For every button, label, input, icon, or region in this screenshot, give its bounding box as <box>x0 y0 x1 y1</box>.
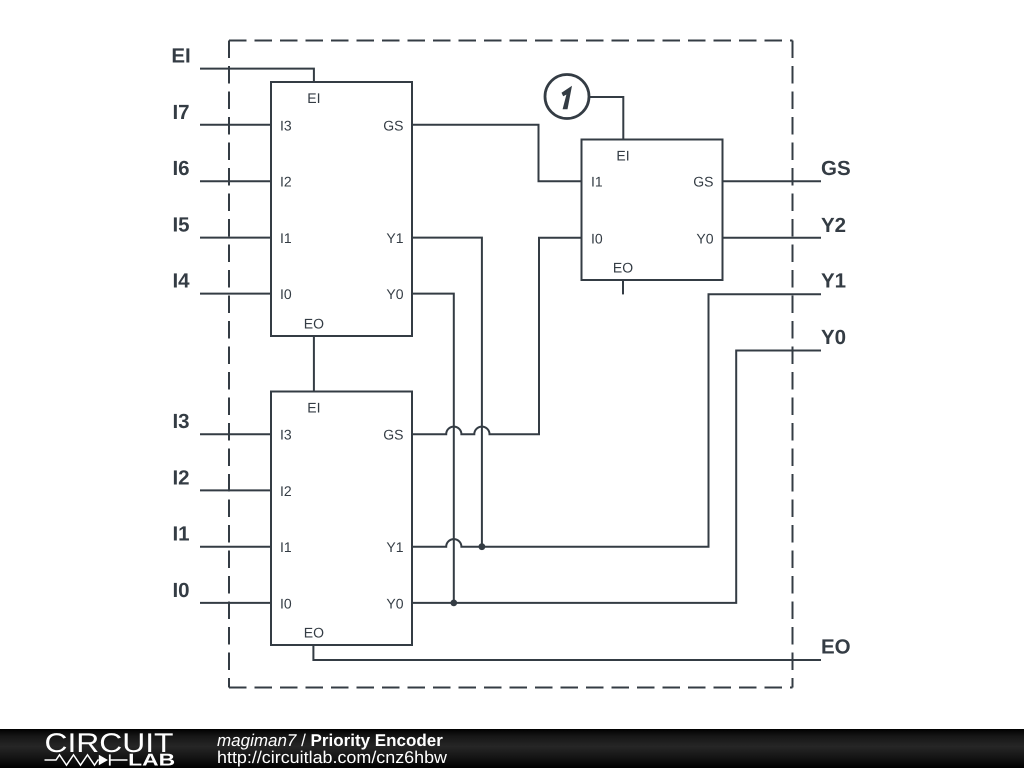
svg-text:EO: EO <box>304 625 324 641</box>
svg-text:I7: I7 <box>172 101 189 124</box>
svg-text:I2: I2 <box>280 174 292 190</box>
svg-text:Y0: Y0 <box>696 230 713 246</box>
svg-text:I2: I2 <box>172 466 189 489</box>
svg-text:GS: GS <box>383 117 403 133</box>
svg-text:I0: I0 <box>172 579 189 602</box>
svg-text:EI: EI <box>616 148 629 164</box>
svg-text:EI: EI <box>171 45 190 68</box>
svg-text:GS: GS <box>693 174 713 190</box>
svg-text:EI: EI <box>307 400 320 416</box>
svg-text:GS: GS <box>383 427 403 443</box>
svg-text:EO: EO <box>304 316 324 332</box>
svg-text:I1: I1 <box>280 230 292 246</box>
svg-text:I2: I2 <box>280 483 292 499</box>
svg-text:I1: I1 <box>591 174 603 190</box>
svg-text:I0: I0 <box>280 286 292 302</box>
svg-text:I1: I1 <box>172 523 189 546</box>
svg-text:I4: I4 <box>172 270 190 293</box>
svg-text:GS: GS <box>821 157 851 180</box>
svg-text:I3: I3 <box>172 410 189 433</box>
svg-text:EO: EO <box>821 635 851 658</box>
svg-text:Y0: Y0 <box>386 595 403 611</box>
svg-text:I3: I3 <box>280 117 292 133</box>
svg-text:I6: I6 <box>172 157 189 180</box>
svg-text:Y1: Y1 <box>386 230 403 246</box>
svg-text:I0: I0 <box>591 230 603 246</box>
svg-text:I5: I5 <box>172 214 189 237</box>
svg-text:I1: I1 <box>280 539 292 555</box>
svg-text:Y1: Y1 <box>386 539 403 555</box>
svg-text:EO: EO <box>613 260 633 276</box>
svg-text:http://circuitlab.com/cnz6hbw: http://circuitlab.com/cnz6hbw <box>217 748 448 767</box>
svg-text:Y0: Y0 <box>821 326 846 349</box>
svg-text:EI: EI <box>307 90 320 106</box>
svg-text:I3: I3 <box>280 427 292 443</box>
svg-text:Y0: Y0 <box>386 286 403 302</box>
svg-text:LAB: LAB <box>128 750 175 768</box>
svg-text:Y2: Y2 <box>821 214 846 237</box>
svg-text:I0: I0 <box>280 595 292 611</box>
svg-text:Y1: Y1 <box>821 270 846 293</box>
